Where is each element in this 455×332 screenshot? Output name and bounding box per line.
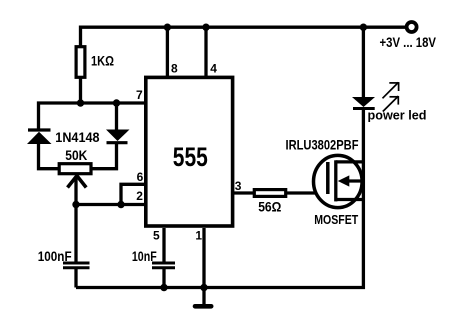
svg-text:2: 2 [136, 189, 143, 203]
svg-text:5: 5 [153, 229, 160, 243]
svg-text:1: 1 [195, 229, 202, 243]
svg-text:+3V ... 18V: +3V ... 18V [380, 34, 437, 50]
svg-text:1N4148: 1N4148 [55, 129, 99, 145]
svg-text:50K: 50K [65, 148, 87, 163]
svg-text:1KΩ: 1KΩ [91, 52, 114, 68]
svg-text:4: 4 [210, 61, 217, 75]
svg-text:MOSFET: MOSFET [314, 212, 358, 227]
svg-text:10nF: 10nF [132, 248, 157, 264]
svg-text:power led: power led [368, 108, 427, 123]
svg-text:56Ω: 56Ω [258, 199, 281, 215]
svg-text:3: 3 [235, 179, 242, 193]
svg-text:8: 8 [171, 61, 178, 75]
svg-text:IRLU3802PBF: IRLU3802PBF [286, 137, 359, 153]
svg-text:6: 6 [137, 170, 144, 184]
svg-text:7: 7 [136, 88, 143, 102]
svg-text:100nF: 100nF [38, 248, 72, 264]
svg-text:555: 555 [173, 142, 208, 172]
